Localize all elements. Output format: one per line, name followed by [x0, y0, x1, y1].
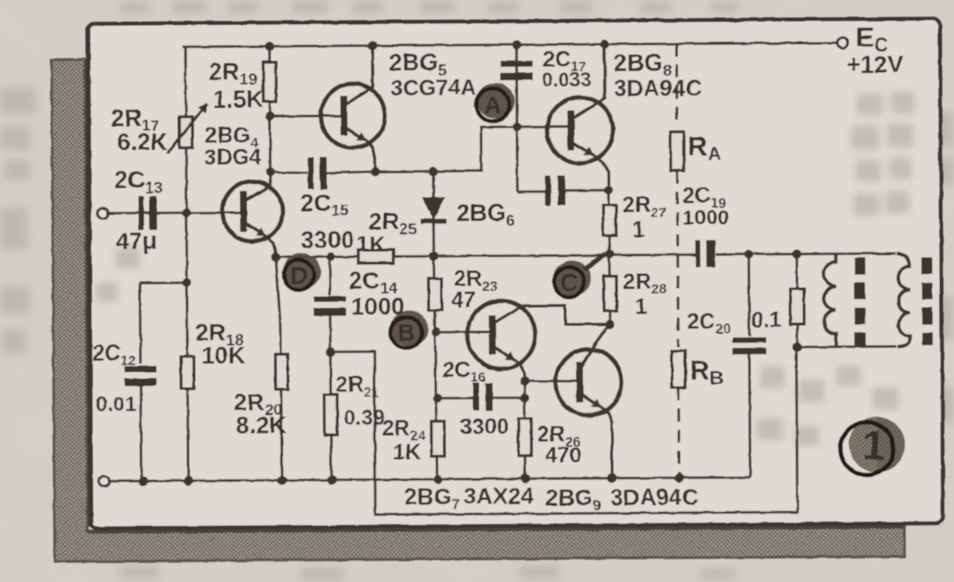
svg-text:3DA94C: 3DA94C — [610, 484, 698, 511]
svg-text:1000: 1000 — [351, 293, 405, 320]
svg-text:0.39: 0.39 — [344, 407, 385, 430]
svg-text:47: 47 — [451, 287, 476, 312]
svg-text:D: D — [290, 263, 308, 290]
svg-text:1: 1 — [861, 421, 887, 469]
svg-text:6.2K: 6.2K — [117, 129, 169, 156]
svg-text:3DA94C: 3DA94C — [614, 75, 702, 102]
svg-text:3DG4: 3DG4 — [204, 144, 262, 169]
svg-text:10K: 10K — [201, 342, 246, 369]
svg-text:8.2K: 8.2K — [236, 412, 288, 439]
svg-text:47μ: 47μ — [116, 228, 158, 255]
svg-text:1: 1 — [633, 217, 645, 242]
svg-text:3300: 3300 — [460, 414, 509, 439]
svg-text:1000: 1000 — [682, 206, 729, 229]
svg-text:+12V: +12V — [847, 51, 904, 78]
svg-text:3300: 3300 — [301, 227, 355, 254]
svg-text:0.033: 0.033 — [542, 69, 592, 91]
svg-text:1K: 1K — [357, 232, 385, 257]
svg-text:1K: 1K — [393, 439, 421, 464]
svg-text:3AX24: 3AX24 — [463, 483, 534, 509]
svg-text:0.1: 0.1 — [751, 307, 782, 332]
svg-text:A: A — [484, 92, 502, 119]
svg-text:0.01: 0.01 — [96, 393, 137, 416]
svg-text:3CG74A: 3CG74A — [391, 75, 477, 101]
svg-text:1.5K: 1.5K — [213, 86, 265, 113]
svg-text:C: C — [560, 270, 578, 297]
svg-text:470: 470 — [545, 442, 582, 467]
svg-text:1: 1 — [635, 294, 647, 319]
svg-text:B: B — [398, 320, 416, 347]
